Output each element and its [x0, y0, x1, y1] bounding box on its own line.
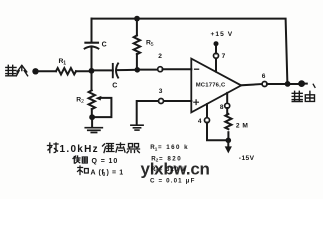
- wire pin 3 to ground: [137, 101, 159, 124]
- svg-text:1.0kHz: 1.0kHz: [60, 144, 100, 155]
- svg-text:C: C: [102, 41, 107, 48]
- input terminal node: [32, 68, 38, 74]
- wire pin 4 from op-amp bottom edge: [206, 104, 208, 118]
- wire node A to capacitor C2: [94, 69, 113, 71]
- wire op-amp to pin 3: [164, 100, 192, 102]
- wire pin 8 to 2M resistor: [226, 108, 228, 114]
- node B junction: [135, 67, 141, 73]
- annotation line 3: 和 A(f0) = 1: [78, 166, 89, 175]
- svg-text:C: C: [112, 83, 117, 90]
- rail junction at R5: [134, 16, 140, 22]
- svg-text:ylxbw.cn: ylxbw.cn: [141, 159, 210, 178]
- output terminal node: [298, 80, 305, 87]
- capacitor C2 (series): [113, 63, 118, 77]
- pin 8 terminal: [225, 103, 230, 108]
- wire node A down to R2: [91, 73, 93, 90]
- svg-text:-15V: -15V: [239, 155, 255, 162]
- +15V supply terminal: [214, 41, 219, 46]
- svg-text:0: 0: [103, 172, 106, 178]
- resistor 2M: [225, 114, 231, 129]
- svg-text:3: 3: [159, 88, 163, 95]
- component values: R1 = 160 k: [150, 144, 189, 151]
- annotation line 2: 使用 Q = 10: [73, 156, 87, 163]
- annotation line 1: 对1.0kHz滤波器: [48, 143, 59, 153]
- node C junction: [89, 114, 95, 120]
- svg-text:5: 5: [151, 42, 154, 48]
- svg-text:2: 2: [81, 99, 84, 105]
- svg-text:2 M: 2 M: [236, 123, 249, 130]
- ground (pin 3): [131, 125, 143, 130]
- label 输入 (input): [6, 65, 28, 76]
- feedback junction node: [285, 81, 291, 87]
- wire node D to -15V: [227, 140, 229, 146]
- wire 2M to node D: [227, 132, 229, 140]
- label 输出 (output): [292, 91, 314, 101]
- svg-text:7: 7: [222, 53, 226, 60]
- wire pin 7 to op-amp top edge: [215, 58, 217, 72]
- wire pin 2 to op-amp: [163, 68, 192, 70]
- svg-text:) = 1: ) = 1: [107, 170, 124, 177]
- pin 7 terminal: [214, 53, 219, 58]
- component values: C = 0.01 uF: [150, 177, 196, 184]
- wire pin7 to +15V: [215, 46, 217, 54]
- pin 2 terminal: [158, 67, 163, 72]
- resistor R2 (rheostat): [89, 90, 95, 109]
- wire node B to pin 2: [140, 69, 158, 71]
- svg-text:2: 2: [158, 53, 162, 60]
- op-amp minus input marker: [195, 68, 199, 70]
- capacitor C1 (shunt, to top rail): [85, 19, 99, 49]
- node D junction: [226, 138, 232, 144]
- -15V supply arrow: [225, 146, 232, 153]
- component values: R2 = 820: [151, 155, 182, 162]
- component values: R5 = 320 k: [151, 166, 187, 173]
- svg-text:= 160 k: = 160 k: [158, 144, 189, 151]
- wire op-amp output to pin 6: [241, 84, 262, 85]
- wire node A up to capacitor C1: [91, 46, 93, 68]
- resistor R5: [134, 35, 140, 54]
- svg-text:C = 0.01 μF: C = 0.01 μF: [150, 177, 196, 184]
- pin 6 terminal: [262, 82, 267, 87]
- svg-text:1: 1: [63, 60, 66, 66]
- svg-text:MC1776,C: MC1776,C: [196, 82, 226, 88]
- op-amp U1 MC1776,C: [191, 59, 241, 113]
- wire node C to ground: [91, 117, 93, 127]
- stray tick mark: [313, 84, 315, 87]
- top feedback rail wire: [92, 19, 288, 84]
- wire R5 to node B: [136, 54, 138, 68]
- pin 4 terminal: [205, 118, 210, 123]
- wire R1 to node A: [76, 70, 92, 72]
- svg-text:Q = 10: Q = 10: [92, 158, 119, 165]
- wire input to R1: [38, 70, 56, 72]
- R2 wiper arrow and return wire: [95, 96, 111, 117]
- resistor R1: [56, 68, 76, 74]
- svg-text:+15 V: +15 V: [211, 31, 234, 38]
- wire pin 8 from op-amp bottom edge: [226, 93, 228, 104]
- svg-text:6: 6: [262, 73, 266, 80]
- wire top rail down to R5: [136, 19, 138, 36]
- ground (R2): [85, 128, 102, 133]
- svg-text:4: 4: [198, 118, 202, 125]
- wire pin 6 to output: [267, 83, 299, 85]
- wire R2 to node C: [91, 109, 93, 117]
- node A junction: [89, 68, 95, 74]
- wire C2 to node B: [118, 69, 138, 71]
- op-amp plus input marker: [194, 100, 199, 105]
- svg-text:8: 8: [220, 104, 224, 111]
- wire pin 4 down and right: [207, 123, 228, 141]
- pin 3 terminal: [159, 99, 164, 104]
